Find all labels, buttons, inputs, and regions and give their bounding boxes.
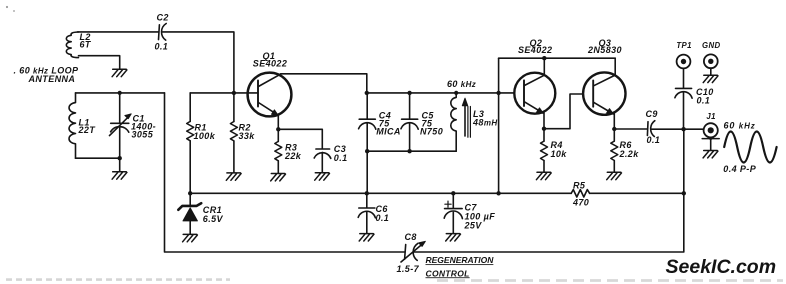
zener diode CR1 [178,193,201,233]
inductor L3 [451,93,456,151]
wire R1 top to base node [190,92,234,94]
node L3 top junction [454,91,458,95]
node mid rail right end junction [682,191,686,195]
node C1 bottom junction [118,156,122,160]
capacitor C3 [278,129,331,172]
capacitor C5 [401,93,418,151]
svg-text:470: 470 [572,197,589,207]
node C7 top junction [451,191,455,195]
ground (R2) [226,173,241,180]
capacitor C7 (electrolytic) [444,193,462,233]
decorative bottom-right watermark row [437,279,783,282]
svg-text:SE4022: SE4022 [253,59,287,69]
capacitor C6 [358,193,375,233]
wire C9 to J1 [651,128,703,130]
svg-text:MICA: MICA [376,126,401,136]
ground (GND jack) [703,75,718,82]
ground (C6) [359,234,374,241]
wire vertical link collector-rail / base-rail / mid-rail [498,58,500,193]
wire mid rail right of R5 [590,192,684,194]
svg-text:0.1: 0.1 [647,135,661,145]
wire Q3 emitter [613,113,615,129]
svg-text:10k: 10k [551,149,568,159]
resistor R4 [541,129,548,172]
svg-text:SeekIC.com: SeekIC.com [666,256,777,278]
capacitor C4 [359,93,376,151]
svg-text:CONTROL: CONTROL [426,268,470,278]
wire Q2/Q3 collector rail [499,57,616,59]
node CR1 top junction [188,191,192,195]
node C4 bottom junction [365,149,369,153]
svg-text:60 kHz: 60 kHz [724,120,756,130]
wire Q3 emitter to C9 [614,128,647,130]
svg-text:0.4 P-P: 0.4 P-P [723,164,756,174]
wire tank top rail to Q2 base [367,92,515,94]
wire Q3 collector [614,58,616,76]
ground (tank return) [112,172,127,179]
node C10 bottom junction [681,127,685,131]
svg-text:2.2k: 2.2k [619,149,640,159]
svg-text:48mH: 48mH [472,117,498,127]
svg-text:33k: 33k [239,131,256,141]
svg-text:6.5V: 6.5V [203,214,224,224]
ground (L2 return) [112,69,127,76]
node link at base rail [496,91,500,95]
wire Q1 base [234,92,258,94]
decorative top-left specks [6,6,15,12]
svg-text:0.1: 0.1 [155,42,169,52]
resistor R3 [275,129,282,173]
svg-text:60 kHz: 60 kHz [447,79,476,89]
wire C4 bottom to mid rail [366,151,368,193]
node Q1 collector / tank junction [365,91,369,95]
ground (C7) [446,234,461,241]
ground (C3) [315,173,330,180]
node link at mid rail [496,191,500,195]
wire Q1 collector to tank [281,74,367,93]
wire bottom rail right of C8 [414,129,684,252]
svg-text:3055: 3055 [132,130,154,140]
ground (J1) [703,151,718,158]
jack TP1 [677,55,691,69]
wire Q2 emitter [543,113,545,129]
wire top rail from L2 top to C2 left plate [78,31,159,33]
svg-text:100k: 100k [194,131,216,141]
node Q2 emitter junction [542,127,546,131]
node base junction [232,91,236,95]
wire L1 bottom to C1 bottom node [76,157,120,159]
svg-text:22k: 22k [284,151,302,161]
node Q3 emitter junction [612,127,616,131]
resistor R6 [611,129,618,172]
svg-text:C8: C8 [405,232,417,242]
node C1 top junction [118,91,122,95]
svg-text:25V: 25V [464,220,483,230]
svg-text:N750: N750 [420,126,443,136]
node C5 bottom junction [407,149,411,153]
node C5 top junction [407,91,411,95]
jack GND [704,54,718,68]
wire L2 bottom to ground [79,56,120,69]
transistor Q3 [583,72,625,114]
wire Q1 emitter [277,115,279,129]
node Q1 emitter junction [276,127,280,131]
svg-text:R5: R5 [573,180,586,190]
capacitor C10 [675,88,692,129]
svg-text:2N5830: 2N5830 [587,45,622,55]
wire tank-top down-link to bottom rail [165,93,405,252]
node C6 top junction [365,191,369,195]
L3 tuning arrow and core lines [462,98,470,137]
wire Q2 collector [543,58,545,75]
svg-text:GND: GND [702,41,721,50]
svg-text:TP1: TP1 [676,41,692,50]
resistor R5 (series in mid rail) [571,190,589,197]
transistor Q2 [514,73,555,114]
wire tank top rail L1 to corner [76,92,165,94]
svg-text:C9: C9 [646,109,658,119]
svg-text:J1: J1 [706,112,715,121]
waveform 60 kHz 0.4 P-P output sine [724,132,776,163]
jack J1 [702,123,719,140]
svg-text:REGENERATION: REGENERATION [426,255,495,265]
resistor R2 [230,93,237,172]
ground (R6) [607,172,622,179]
inductor L2 [66,32,78,58]
svg-text:ANTENNA: ANTENNA [28,74,76,84]
wire C2 right plate to base-node vertical [163,32,234,93]
svg-text:6T: 6T [80,40,92,50]
capacitor C9 [647,121,654,137]
ground (R4) [536,172,551,179]
svg-text:0.1: 0.1 [697,96,711,106]
ground (CR1) [183,234,198,241]
ground (R3) [271,174,286,181]
svg-text:C2: C2 [157,13,169,23]
wire GND jack to ground [710,68,712,74]
svg-text:0.1: 0.1 [334,153,348,163]
wire tank bottom rail [367,150,456,152]
svg-text:0.1: 0.1 [376,213,390,223]
inductor L1 [69,93,75,158]
wire Q2 emitter to Q3 base [544,94,583,129]
svg-text:22T: 22T [78,125,97,135]
wire TP1 to C10 [683,68,685,88]
capacitor C2 [159,24,167,41]
node Q2 collector junction [542,56,546,60]
svg-text:1.5-7: 1.5-7 [397,264,420,274]
transistor Q1 [248,73,292,117]
capacitor C8 (variable, series in bottom rail) [401,241,425,262]
svg-text:SE4022: SE4022 [518,45,552,55]
capacitor C1 (variable) [110,93,132,158]
resistor R1 [187,93,194,193]
wire C1 node to ground [119,158,121,171]
decorative bottom-left watermark row [6,278,230,281]
wire J1 to ground [710,139,712,150]
wire mid rail (6.5V bus) [190,192,571,194]
